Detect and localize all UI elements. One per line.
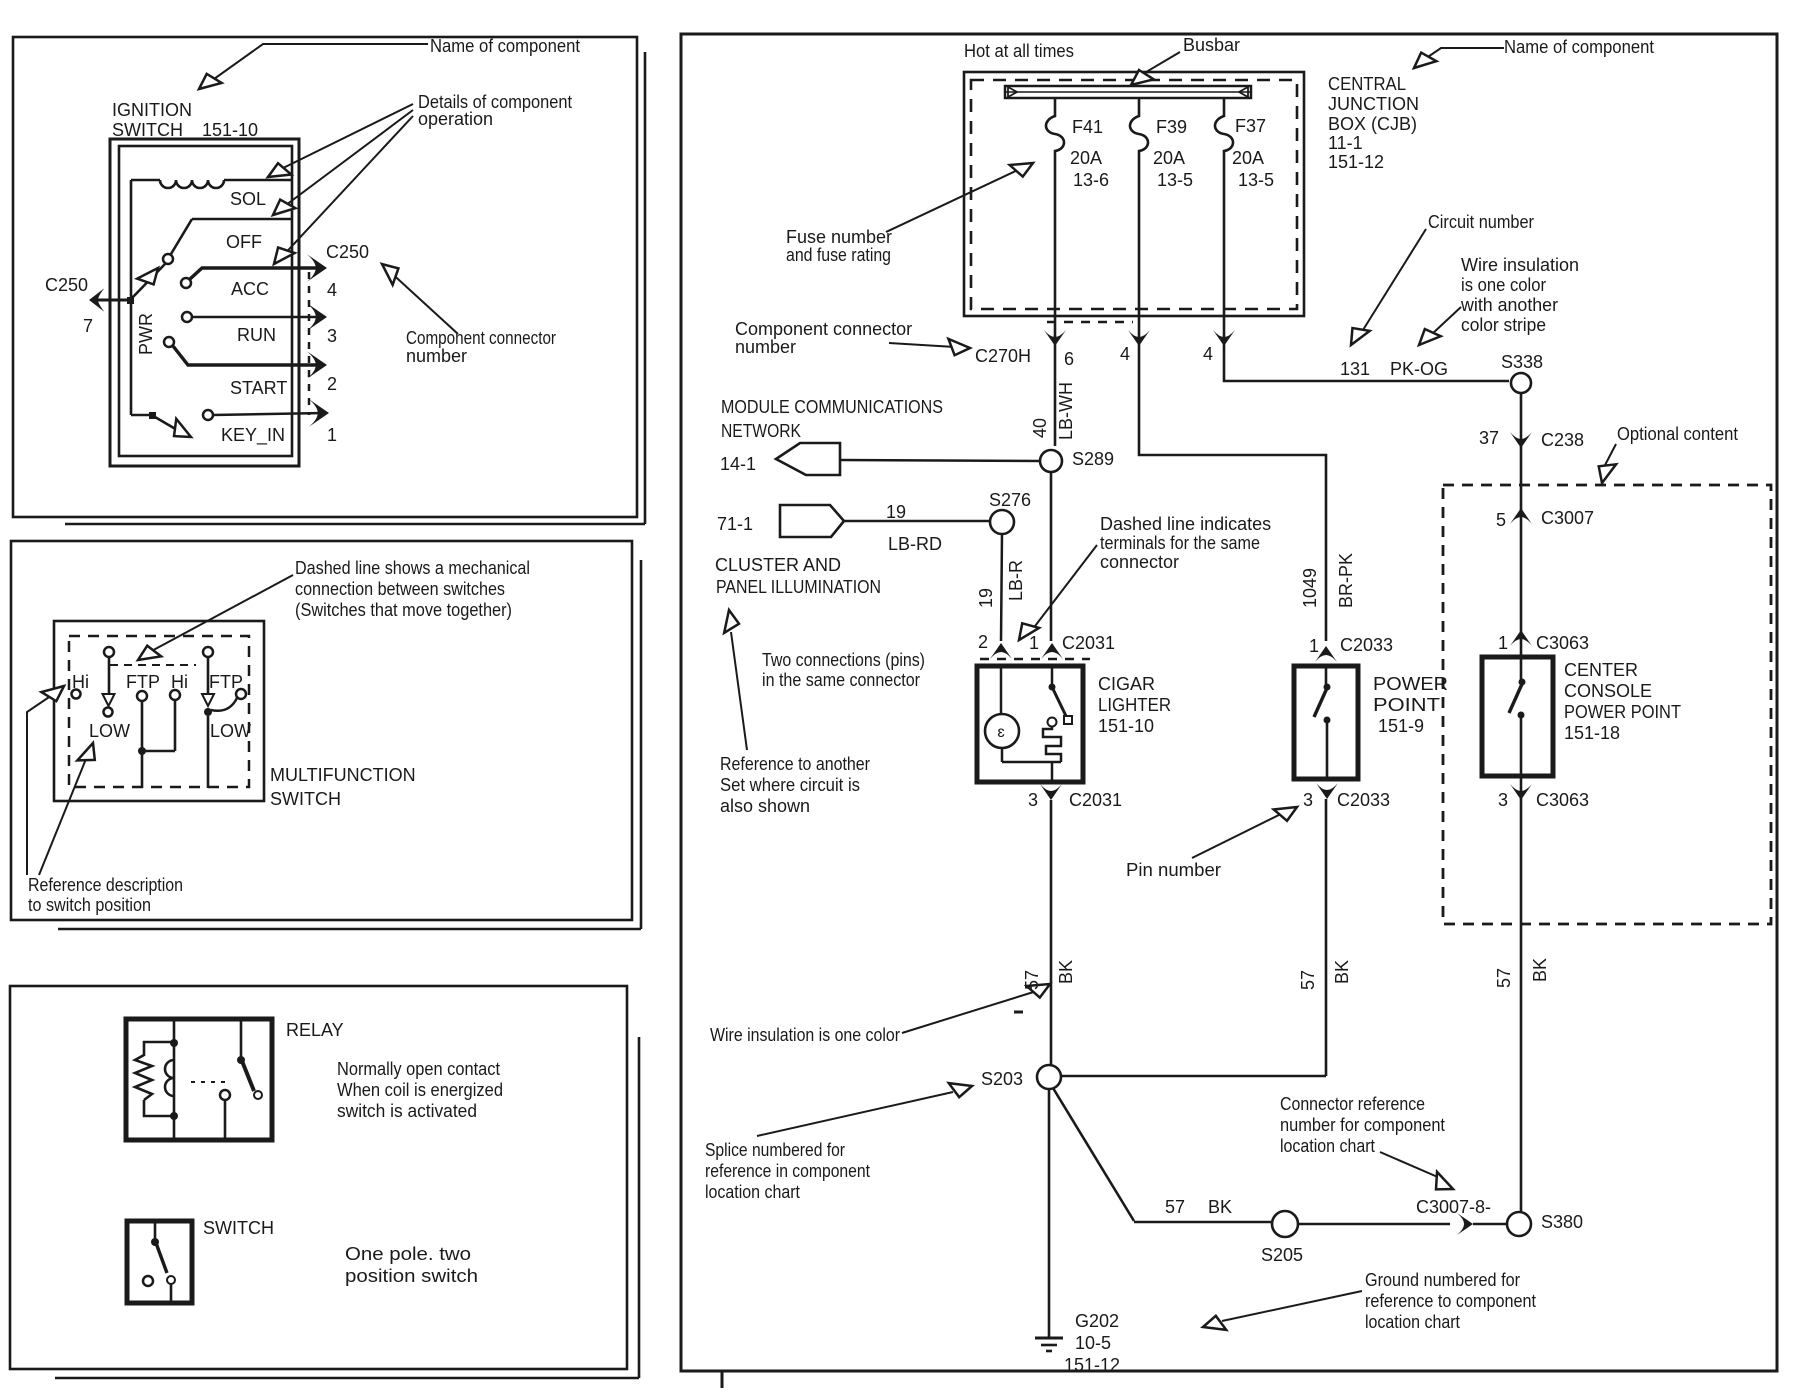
svg-text:SWITCH: SWITCH — [112, 120, 183, 140]
svg-text:F41: F41 — [1072, 117, 1103, 137]
svg-text:BK: BK — [1332, 960, 1352, 984]
svg-text:ɛ: ɛ — [997, 724, 1004, 741]
svg-text:151-18: 151-18 — [1564, 723, 1620, 743]
svg-text:C3007: C3007 — [1541, 508, 1594, 528]
svg-text:Hi: Hi — [72, 672, 89, 692]
svg-text:NETWORK: NETWORK — [721, 421, 801, 441]
svg-text:switch is activated: switch is activated — [337, 1101, 477, 1121]
svg-text:Fuse number: Fuse number — [786, 227, 892, 247]
svg-text:C250: C250 — [45, 275, 88, 295]
svg-text:and fuse rating: and fuse rating — [786, 245, 891, 265]
svg-text:POINT: POINT — [1373, 695, 1440, 715]
svg-text:connector: connector — [1100, 552, 1179, 572]
svg-text:Dashed line shows a mechanical: Dashed line shows a mechanical — [295, 558, 530, 578]
svg-text:Dashed line indicates: Dashed line indicates — [1100, 514, 1271, 534]
svg-text:KEY_IN: KEY_IN — [221, 425, 285, 446]
svg-text:57: 57 — [1298, 970, 1318, 990]
svg-text:57: 57 — [1165, 1197, 1185, 1217]
svg-text:13-6: 13-6 — [1073, 170, 1109, 190]
svg-text:1: 1 — [1309, 636, 1319, 656]
svg-text:40: 40 — [1030, 418, 1050, 438]
svg-text:One pole. two: One pole. two — [345, 1244, 471, 1264]
svg-text:MODULE COMMUNICATIONS: MODULE COMMUNICATIONS — [721, 397, 943, 417]
svg-text:location chart: location chart — [1280, 1136, 1375, 1156]
svg-text:CENTER: CENTER — [1564, 660, 1638, 680]
svg-text:FTP: FTP — [126, 672, 160, 692]
svg-text:7: 7 — [83, 316, 93, 336]
svg-text:151-12: 151-12 — [1064, 1355, 1120, 1375]
svg-text:Circuit number: Circuit number — [1428, 212, 1534, 232]
svg-text:CLUSTER AND: CLUSTER AND — [715, 555, 841, 575]
svg-text:151-9: 151-9 — [1378, 716, 1424, 736]
svg-text:reference to component: reference to component — [1365, 1291, 1536, 1311]
svg-text:Component connector: Component connector — [735, 319, 912, 339]
svg-text:3: 3 — [1028, 790, 1038, 810]
svg-text:to switch position: to switch position — [28, 895, 151, 915]
svg-text:(Switches that move together): (Switches that move together) — [295, 600, 512, 620]
svg-text:position switch: position switch — [345, 1266, 478, 1286]
svg-text:C250: C250 — [326, 242, 369, 262]
svg-text:10-5: 10-5 — [1075, 1333, 1111, 1353]
svg-text:also shown: also shown — [720, 796, 810, 816]
svg-text:C3007-8-: C3007-8- — [1416, 1197, 1491, 1217]
svg-text:SOL: SOL — [230, 189, 266, 209]
svg-text:C2033: C2033 — [1340, 635, 1393, 655]
svg-text:S338: S338 — [1501, 352, 1543, 372]
svg-text:JUNCTION: JUNCTION — [1328, 94, 1419, 114]
svg-text:Hi: Hi — [171, 672, 188, 692]
svg-text:F39: F39 — [1156, 117, 1187, 137]
svg-text:C3063: C3063 — [1536, 790, 1589, 810]
svg-text:Splice numbered for: Splice numbered for — [705, 1140, 845, 1160]
svg-text:S276: S276 — [989, 490, 1031, 510]
svg-text:S289: S289 — [1072, 449, 1114, 469]
svg-text:151-10: 151-10 — [1098, 716, 1154, 736]
svg-text:Wire insulation: Wire insulation — [1461, 255, 1579, 275]
svg-text:Component connector: Component connector — [406, 328, 556, 348]
svg-text:19: 19 — [976, 588, 996, 608]
svg-text:14-1: 14-1 — [720, 454, 756, 474]
svg-text:2: 2 — [978, 632, 988, 652]
svg-text:is one color: is one color — [1461, 275, 1546, 295]
svg-text:1: 1 — [327, 425, 337, 445]
svg-text:reference in component: reference in component — [705, 1161, 870, 1181]
svg-text:color stripe: color stripe — [1461, 315, 1546, 335]
svg-text:6: 6 — [1064, 349, 1074, 369]
svg-text:2: 2 — [327, 374, 337, 394]
svg-text:PWR: PWR — [136, 313, 156, 355]
svg-text:C270H: C270H — [975, 346, 1031, 366]
svg-text:BOX (CJB): BOX (CJB) — [1328, 114, 1417, 134]
svg-text:3: 3 — [1303, 790, 1313, 810]
svg-text:BR-PK: BR-PK — [1336, 553, 1356, 608]
svg-text:CIGAR: CIGAR — [1098, 674, 1155, 694]
svg-text:connection between switches: connection between switches — [295, 579, 505, 599]
svg-text:number: number — [406, 346, 467, 366]
svg-text:20A: 20A — [1070, 148, 1102, 168]
svg-text:3: 3 — [327, 326, 337, 346]
svg-text:IGNITION: IGNITION — [112, 100, 192, 120]
svg-text:PANEL ILLUMINATION: PANEL ILLUMINATION — [716, 577, 881, 597]
svg-text:3: 3 — [1498, 790, 1508, 810]
svg-text:Ground numbered for: Ground numbered for — [1365, 1270, 1520, 1290]
svg-text:37: 37 — [1479, 428, 1499, 448]
svg-text:location chart: location chart — [1365, 1312, 1460, 1332]
svg-text:MULTIFUNCTION: MULTIFUNCTION — [270, 765, 416, 785]
svg-text:terminals for the same: terminals for the same — [1100, 533, 1260, 553]
svg-text:C3063: C3063 — [1536, 633, 1589, 653]
svg-text:START: START — [230, 378, 287, 398]
svg-text:FTP: FTP — [209, 672, 243, 692]
svg-text:LB-RD: LB-RD — [888, 534, 942, 554]
svg-text:13-5: 13-5 — [1238, 170, 1274, 190]
svg-text:Reference to another: Reference to another — [720, 754, 870, 774]
svg-text:151-10: 151-10 — [202, 120, 258, 140]
svg-text:number for component: number for component — [1280, 1115, 1445, 1135]
svg-text:57: 57 — [1494, 968, 1514, 988]
svg-text:G202: G202 — [1075, 1311, 1119, 1331]
svg-text:Busbar: Busbar — [1183, 35, 1240, 55]
svg-text:S380: S380 — [1541, 1212, 1583, 1232]
svg-text:LB-WH: LB-WH — [1056, 382, 1076, 440]
svg-text:Connector reference: Connector reference — [1280, 1094, 1425, 1114]
svg-text:ACC: ACC — [231, 279, 269, 299]
svg-text:71-1: 71-1 — [717, 514, 753, 534]
svg-text:1049: 1049 — [1300, 568, 1320, 608]
svg-text:location chart: location chart — [705, 1182, 800, 1202]
svg-text:LB-R: LB-R — [1006, 560, 1026, 601]
svg-text:4: 4 — [1203, 344, 1213, 364]
svg-text:POWER POINT: POWER POINT — [1564, 702, 1681, 722]
svg-text:LIGHTER: LIGHTER — [1098, 695, 1171, 715]
svg-text:Set where circuit is: Set where circuit is — [720, 775, 860, 795]
svg-text:20A: 20A — [1153, 148, 1185, 168]
svg-text:Normally open contact: Normally open contact — [337, 1059, 500, 1079]
svg-text:20A: 20A — [1232, 148, 1264, 168]
svg-text:5: 5 — [1496, 510, 1506, 530]
svg-text:57: 57 — [1022, 970, 1042, 990]
svg-text:11-1: 11-1 — [1328, 133, 1363, 153]
svg-text:SWITCH: SWITCH — [203, 1218, 274, 1238]
svg-text:1: 1 — [1498, 633, 1508, 653]
svg-text:with another: with another — [1460, 295, 1558, 315]
svg-text:4: 4 — [1120, 344, 1130, 364]
svg-text:POWER: POWER — [1373, 674, 1448, 694]
svg-text:F37: F37 — [1235, 116, 1266, 136]
svg-text:19: 19 — [886, 502, 906, 522]
svg-text:operation: operation — [418, 109, 493, 129]
svg-text:Pin number: Pin number — [1126, 860, 1221, 880]
svg-text:BK: BK — [1530, 958, 1550, 982]
svg-text:PK-OG: PK-OG — [1390, 359, 1448, 379]
svg-text:CONSOLE: CONSOLE — [1564, 681, 1652, 701]
svg-text:Two connections (pins): Two connections (pins) — [762, 650, 925, 670]
svg-text:OFF: OFF — [226, 232, 262, 252]
svg-text:Hot at all times: Hot at all times — [964, 41, 1074, 61]
svg-text:C2033: C2033 — [1337, 790, 1390, 810]
svg-text:C238: C238 — [1541, 430, 1584, 450]
svg-text:number: number — [735, 337, 796, 357]
svg-text:LOW: LOW — [210, 721, 251, 741]
svg-text:Wire insulation is one color: Wire insulation is one color — [710, 1025, 900, 1045]
svg-text:BK: BK — [1208, 1197, 1232, 1217]
svg-text:C2031: C2031 — [1069, 790, 1122, 810]
svg-text:RELAY: RELAY — [286, 1020, 344, 1040]
svg-text:S203: S203 — [981, 1069, 1023, 1089]
svg-text:When coil is energized: When coil is energized — [337, 1080, 503, 1100]
svg-text:SWITCH: SWITCH — [270, 789, 341, 809]
svg-text:LOW: LOW — [89, 721, 130, 741]
svg-text:in the same connector: in the same connector — [762, 670, 920, 690]
svg-text:131: 131 — [1340, 359, 1370, 379]
svg-text:Optional content: Optional content — [1617, 424, 1738, 444]
svg-text:4: 4 — [327, 280, 337, 300]
svg-text:Reference description: Reference description — [28, 875, 183, 895]
svg-text:13-5: 13-5 — [1157, 170, 1193, 190]
svg-text:BK: BK — [1056, 960, 1076, 984]
svg-text:Name of component: Name of component — [1504, 37, 1654, 57]
svg-text:151-12: 151-12 — [1328, 152, 1384, 172]
svg-text:1: 1 — [1029, 633, 1039, 653]
svg-text:Name of component: Name of component — [430, 36, 580, 56]
svg-text:CENTRAL: CENTRAL — [1328, 74, 1406, 94]
svg-text:RUN: RUN — [237, 325, 276, 345]
svg-text:S205: S205 — [1261, 1245, 1303, 1265]
svg-text:C2031: C2031 — [1062, 633, 1115, 653]
